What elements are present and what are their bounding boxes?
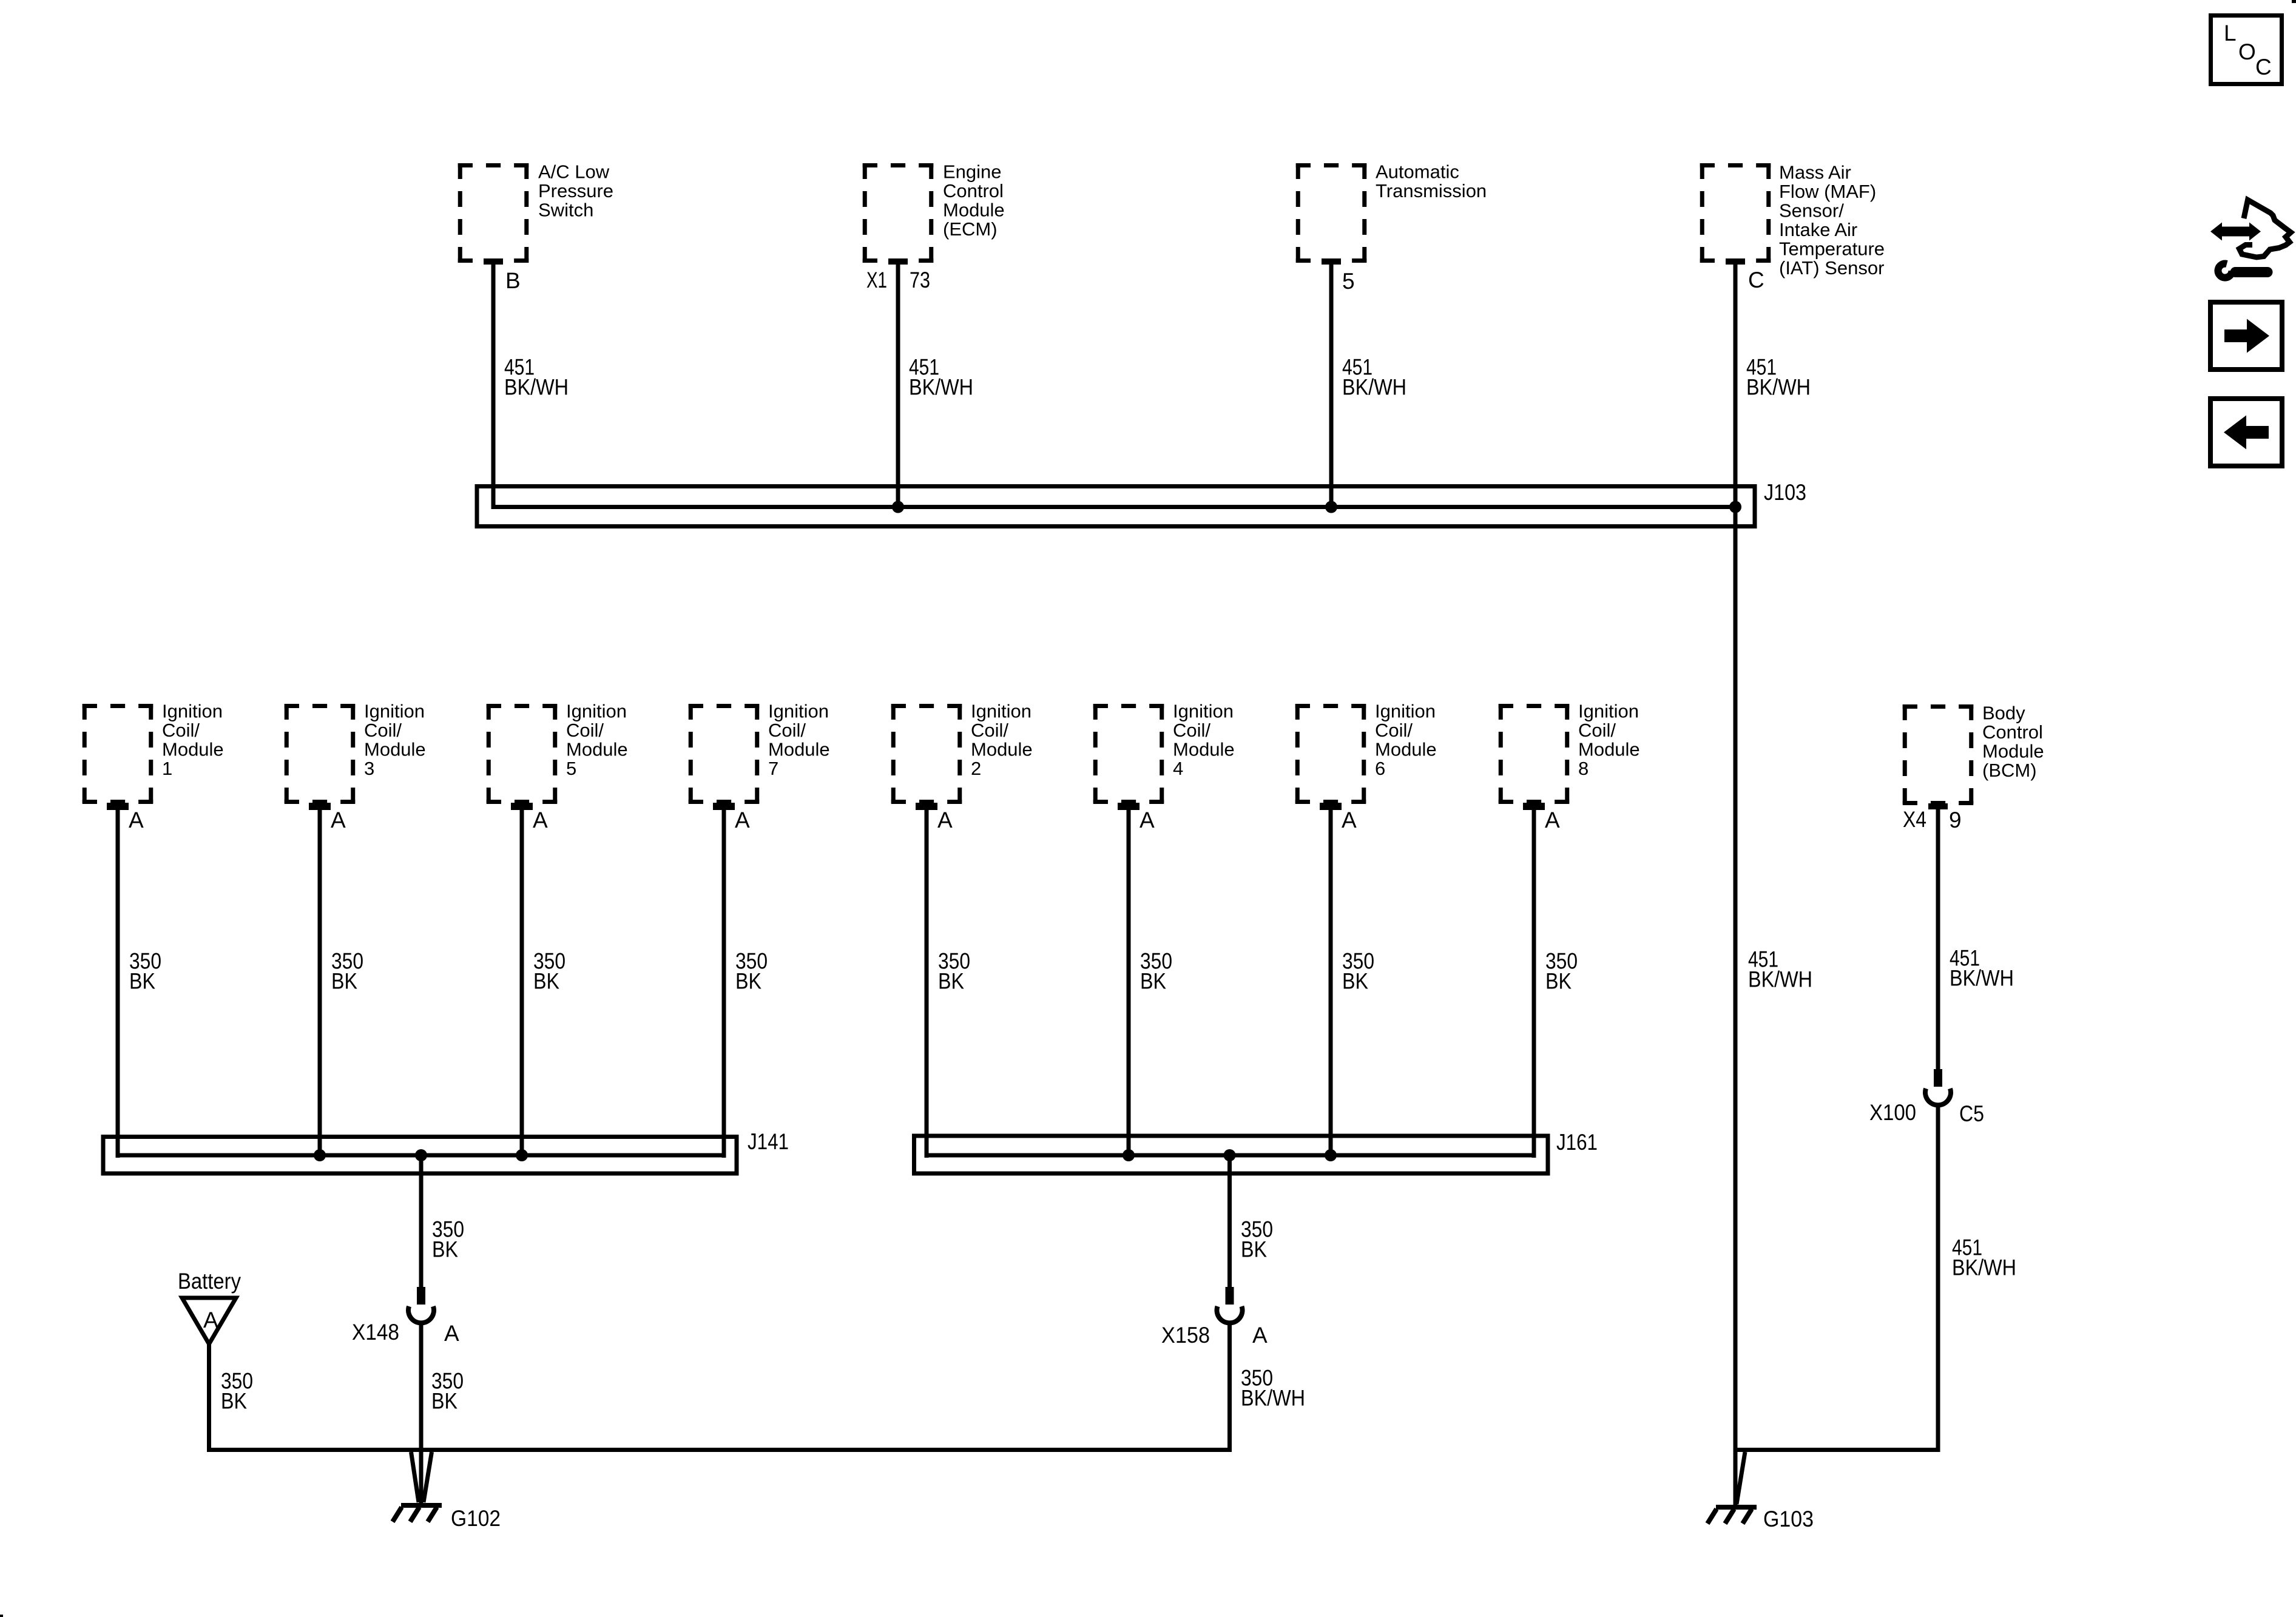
svg-text:Pressure: Pressure (538, 180, 613, 201)
wire: A/C switch pin B to J103, circuit 451 BK/WH (484, 258, 503, 265)
svg-text:A: A (533, 808, 548, 832)
svg-text:Switch: Switch (538, 200, 593, 221)
svg-text:Module: Module (971, 739, 1033, 760)
svg-text:Control: Control (943, 180, 1004, 201)
svg-text:Ignition: Ignition (1375, 701, 1436, 722)
svg-text:1: 1 (162, 758, 172, 779)
connector X158 terminal A (1217, 1287, 1243, 1323)
svg-text:Ignition: Ignition (1173, 701, 1234, 722)
svg-text:BK: BK (331, 969, 357, 994)
svg-text:J161: J161 (1556, 1130, 1598, 1155)
svg-text:Automatic: Automatic (1376, 161, 1459, 183)
svg-text:BK: BK (221, 1389, 247, 1414)
svg-text:Module: Module (566, 739, 628, 760)
svg-text:J103: J103 (1764, 480, 1806, 505)
svg-text:G103: G103 (1763, 1507, 1814, 1531)
svg-text:Coil/: Coil/ (566, 720, 604, 741)
svg-text:X1: X1 (866, 268, 887, 292)
svg-text:Coil/: Coil/ (162, 720, 200, 741)
svg-text:O: O (2238, 39, 2256, 64)
svg-text:C: C (1748, 268, 1764, 292)
wire: BCM X4-9 down to X100 connector, circuit 451 BK/WH (1928, 803, 1948, 809)
svg-text:A: A (444, 1321, 459, 1346)
svg-text:BK/WH: BK/WH (1748, 967, 1812, 992)
svg-text:Temperature: Temperature (1779, 238, 1885, 260)
junction: coil 5 wire on J141 bus (516, 1149, 528, 1161)
junction: coil 3 wire on J141 bus (314, 1149, 326, 1161)
J161 internal bus wire (927, 1153, 1534, 1158)
ground G103 (1707, 1507, 1757, 1524)
wire: Ignition Coil/Module 6 pin A down to splice pack, circuit 350 BK (1320, 803, 1342, 810)
wire: battery terminal A down to ground wire, circuit 350 BK (207, 1342, 211, 1452)
svg-text:Ignition: Ignition (1578, 701, 1639, 722)
svg-text:5: 5 (1342, 269, 1355, 294)
component: Ignition Coil/Module 1 (dashed box) (83, 704, 154, 804)
svg-text:X4: X4 (1903, 807, 1926, 832)
svg-text:BK: BK (432, 1237, 458, 1262)
svg-text:X148: X148 (352, 1320, 399, 1345)
wire: Ignition Coil/Module 7 pin A down to splice pack, circuit 350 BK (713, 803, 735, 810)
svg-text:A: A (1252, 1323, 1268, 1348)
svg-text:Intake Air: Intake Air (1779, 219, 1857, 240)
svg-text:Coil/: Coil/ (768, 720, 806, 741)
component: Ignition Coil/Module 8 (dashed box) (1499, 704, 1570, 804)
svg-text:Module: Module (1982, 741, 2044, 762)
svg-text:(IAT) Sensor: (IAT) Sensor (1779, 257, 1884, 279)
svg-text:BK: BK (533, 969, 559, 994)
svg-text:A: A (1140, 808, 1155, 832)
svg-text:(ECM): (ECM) (943, 218, 998, 240)
svg-text:Coil/: Coil/ (971, 720, 1008, 741)
svg-text:BK/WH: BK/WH (1342, 375, 1406, 400)
svg-text:G102: G102 (451, 1506, 501, 1531)
svg-text:A: A (203, 1308, 218, 1332)
svg-text:X158: X158 (1161, 1323, 1210, 1348)
svg-text:Battery: Battery (178, 1269, 241, 1294)
svg-text:A: A (1545, 808, 1560, 832)
ground funnel into G102 (411, 1452, 432, 1502)
svg-text:Module: Module (1375, 739, 1437, 760)
vehicle orientation icon (car outline with double arrow and wrench) (2210, 200, 2291, 278)
svg-text:BK: BK (1545, 969, 1572, 994)
component: Ignition Coil/Module 4 (dashed box) (1093, 704, 1164, 804)
svg-text:A: A (1342, 808, 1357, 832)
svg-text:Coil/: Coil/ (1173, 720, 1210, 741)
page corner printing mark (bottom left) (0, 1615, 3, 1617)
wire: X148 to ground junction, circuit 350 BK (419, 1323, 424, 1503)
svg-text:BK/WH: BK/WH (1952, 1255, 2016, 1280)
splice pack J103 (bus bar) (477, 487, 1755, 527)
wire: ECM X1-73 to J103, circuit 451 BK/WH (888, 258, 908, 265)
svg-text:BK/WH: BK/WH (1241, 1386, 1305, 1411)
svg-text:Coil/: Coil/ (1578, 720, 1616, 741)
svg-text:6: 6 (1375, 758, 1385, 779)
svg-text:Sensor/: Sensor/ (1779, 200, 1844, 221)
component: Ignition Coil/Module 7 (dashed box) (689, 704, 760, 804)
wire: MAF/IAT pin C through J103 down to G103, circuit 451 BK/WH (1726, 258, 1745, 265)
wire: bottom ground bus joining battery, X148 branch, X158 branch at G102 (207, 1448, 1232, 1452)
svg-text:8: 8 (1578, 758, 1589, 779)
svg-text:Module: Module (943, 200, 1005, 221)
svg-text:BK: BK (129, 969, 155, 994)
junction: coil 6 wire on J161 bus (1325, 1149, 1337, 1161)
wire: horizontal run from BCM branch to G103 (1737, 1448, 1940, 1452)
ground G102 (393, 1505, 442, 1522)
svg-text:BK/WH: BK/WH (1950, 966, 2014, 991)
connector X148 terminal A (408, 1287, 434, 1323)
battery symbol (triangle) (182, 1298, 236, 1344)
wire: X158 down to bottom ground bus, circuit 350 BK/WH (1227, 1323, 1232, 1452)
svg-text:Module: Module (1173, 739, 1235, 760)
svg-text:B: B (505, 268, 521, 293)
svg-text:Transmission: Transmission (1376, 180, 1487, 201)
junction: ECM wire on J103 bus (892, 501, 904, 513)
component: Automatic Transmission (dashed box) (1296, 163, 1367, 263)
svg-text:BK: BK (938, 969, 964, 994)
svg-text:A: A (331, 808, 346, 832)
wire: diagonal drop into ground G103 (1737, 1452, 1745, 1504)
junction: transmission wire on J103 bus (1325, 501, 1337, 513)
component: Body Control Module (BCM) (dashed box) (1903, 704, 1974, 805)
component: Ignition Coil/Module 3 (dashed box) (285, 704, 356, 804)
junction: J141 output wire (415, 1149, 427, 1161)
wire: Ignition Coil/Module 3 pin A down to splice pack, circuit 350 BK (309, 803, 331, 810)
svg-text:3: 3 (364, 758, 374, 779)
svg-text:Module: Module (1578, 739, 1640, 760)
component: Ignition Coil/Module 2 (dashed box) (891, 704, 962, 804)
junction: coil 4 wire on J161 bus (1123, 1149, 1135, 1161)
svg-text:9: 9 (1949, 808, 1962, 832)
J103 internal bus wire (493, 505, 1735, 509)
svg-text:BK: BK (1342, 969, 1368, 994)
svg-text:Engine: Engine (943, 161, 1002, 183)
component: A/C Low Pressure Switch (dashed box) (458, 163, 529, 263)
svg-text:Flow (MAF): Flow (MAF) (1779, 181, 1876, 202)
svg-text:A/C Low: A/C Low (538, 161, 610, 183)
wire: Automatic Transmission pin 5 to J103, circuit 451 BK/WH (1322, 258, 1341, 265)
svg-text:C: C (2255, 55, 2272, 79)
svg-text:Ignition: Ignition (566, 701, 627, 722)
svg-text:BK/WH: BK/WH (1746, 375, 1811, 400)
wire: X100 C5 down toward G103, circuit 451 BK/WH (1936, 1105, 1940, 1452)
junction: MAF wire on J103 bus (1729, 501, 1741, 513)
svg-text:J141: J141 (748, 1129, 789, 1154)
svg-text:Control: Control (1982, 721, 2043, 743)
J141 internal bus wire (118, 1153, 724, 1158)
wire: Ignition Coil/Module 8 pin A down to splice pack, circuit 350 BK (1523, 803, 1545, 810)
splice pack J141 (bus bar) (103, 1137, 737, 1174)
svg-text:X100: X100 (1869, 1100, 1916, 1125)
svg-text:A: A (735, 808, 750, 832)
wire: J141 to connector X148, circuit 350 BK (419, 1155, 424, 1287)
svg-text:7: 7 (768, 758, 778, 779)
junction: J161 output wire (1224, 1149, 1236, 1161)
wire: Ignition Coil/Module 1 pin A down to splice pack, circuit 350 BK (107, 803, 129, 810)
svg-text:A: A (937, 808, 953, 832)
svg-text:BK: BK (1140, 969, 1166, 994)
svg-text:A: A (129, 808, 144, 832)
wire: Ignition Coil/Module 5 pin A down to splice pack, circuit 350 BK (511, 803, 533, 810)
svg-text:2: 2 (971, 758, 981, 779)
svg-text:Module: Module (162, 739, 224, 760)
svg-text:4: 4 (1173, 758, 1183, 779)
component: Engine Control Module (ECM) (dashed box) (863, 163, 934, 263)
wire: J161 to connector X158, circuit 350 BK (1227, 1155, 1232, 1287)
connector X100 terminal C5 (1925, 1069, 1951, 1105)
splice pack J161 (bus bar) (914, 1136, 1548, 1173)
svg-text:Ignition: Ignition (364, 701, 425, 722)
forward arrow legend box (2210, 302, 2282, 370)
svg-text:BK: BK (431, 1389, 458, 1414)
svg-text:Ignition: Ignition (768, 701, 829, 722)
svg-text:Coil/: Coil/ (1375, 720, 1413, 741)
backward arrow legend box (2210, 399, 2282, 466)
page corner printing mark (top right) (2292, 0, 2296, 3)
wire: Ignition Coil/Module 2 pin A down to splice pack, circuit 350 BK (916, 803, 937, 810)
svg-text:Ignition: Ignition (162, 701, 223, 722)
svg-text:(BCM): (BCM) (1982, 760, 2037, 781)
svg-text:Coil/: Coil/ (364, 720, 402, 741)
svg-text:C5: C5 (1959, 1101, 1984, 1126)
svg-text:BK/WH: BK/WH (909, 375, 973, 400)
component: Ignition Coil/Module 6 (dashed box) (1295, 704, 1366, 804)
svg-text:BK: BK (735, 969, 761, 994)
svg-text:Body: Body (1982, 703, 2025, 724)
wire: Ignition Coil/Module 4 pin A down to splice pack, circuit 350 BK (1118, 803, 1140, 810)
LOC legend box (2211, 16, 2282, 84)
component: Mass Air Flow (MAF)/Intake Air Temperature (IAT) Sensor (dashed box) (1700, 163, 1771, 263)
component: Ignition Coil/Module 5 (dashed box) (487, 704, 558, 804)
svg-text:BK: BK (1241, 1237, 1267, 1262)
svg-text:BK/WH: BK/WH (504, 375, 569, 400)
svg-text:Module: Module (768, 739, 830, 760)
svg-text:Module: Module (364, 739, 426, 760)
svg-text:Ignition: Ignition (971, 701, 1032, 722)
svg-text:Mass Air: Mass Air (1779, 162, 1851, 183)
svg-text:5: 5 (566, 758, 576, 779)
svg-text:L: L (2224, 21, 2237, 46)
svg-text:73: 73 (910, 268, 930, 292)
